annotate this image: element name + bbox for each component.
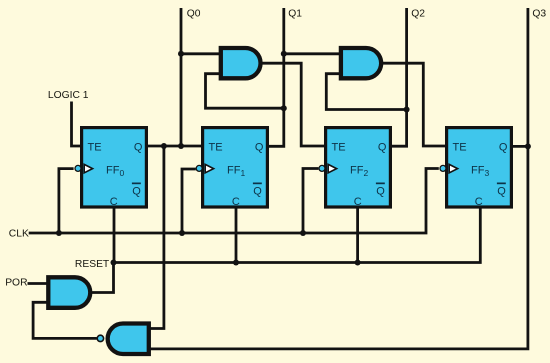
svg-text:Q: Q [378, 141, 387, 153]
svg-text:Q: Q [499, 141, 508, 153]
svg-text:LOGIC 1: LOGIC 1 [48, 90, 89, 101]
svg-text:TE: TE [88, 141, 102, 153]
svg-text:Q: Q [132, 185, 141, 197]
svg-text:TE: TE [332, 141, 346, 153]
svg-text:Q: Q [497, 185, 506, 197]
svg-text:C: C [354, 196, 362, 208]
svg-text:Q: Q [134, 141, 143, 153]
svg-text:C: C [475, 196, 483, 208]
svg-text:C: C [232, 196, 240, 208]
svg-text:Q1: Q1 [288, 9, 302, 20]
svg-text:TE: TE [209, 141, 223, 153]
svg-text:TE: TE [453, 141, 467, 153]
svg-text:Q0: Q0 [187, 9, 201, 20]
svg-text:Q: Q [376, 185, 385, 197]
svg-text:Q: Q [253, 185, 262, 197]
svg-text:POR: POR [5, 278, 27, 289]
svg-text:C: C [110, 196, 118, 208]
svg-text:Q3: Q3 [532, 9, 546, 20]
svg-text:RESET: RESET [75, 259, 110, 270]
svg-text:CLK: CLK [9, 229, 29, 240]
svg-text:Q: Q [255, 141, 264, 153]
svg-text:Q2: Q2 [411, 9, 425, 20]
